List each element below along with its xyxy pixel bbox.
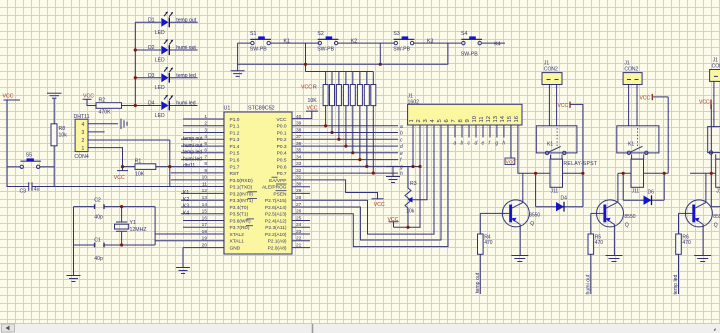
svg-text:g: g — [495, 141, 498, 147]
svg-text:P2.6(A14): P2.6(A14) — [265, 205, 287, 211]
svg-text:12MHZ: 12MHZ — [130, 227, 147, 233]
svg-text:470: 470 — [682, 240, 691, 246]
svg-text:C2: C2 — [94, 198, 101, 204]
svg-text:855: 855 — [713, 214, 720, 220]
svg-text:h: h — [400, 171, 403, 177]
svg-text:DHT11: DHT11 — [74, 114, 90, 120]
svg-text:temp led: temp led — [176, 73, 196, 79]
svg-text:P0.3: P0.3 — [277, 144, 287, 150]
svg-text:P0.2: P0.2 — [277, 137, 287, 143]
svg-text:P2.4(A12): P2.4(A12) — [265, 218, 287, 224]
svg-text:D6: D6 — [648, 190, 655, 196]
svg-text:470: 470 — [484, 240, 493, 246]
svg-text:38: 38 — [296, 127, 302, 133]
svg-text:d: d — [400, 144, 403, 150]
svg-text:SW-PB: SW-PB — [461, 52, 478, 58]
svg-text:VCC: VCC — [506, 160, 516, 165]
svg-text:SW-PB: SW-PB — [317, 47, 334, 53]
svg-text:P0.1: P0.1 — [277, 130, 287, 136]
svg-text:P1.3: P1.3 — [230, 137, 240, 143]
svg-text:8: 8 — [458, 119, 464, 122]
svg-text:RELAY-SPST: RELAY-SPST — [563, 161, 598, 167]
svg-text:R8: R8 — [59, 126, 66, 132]
svg-text:30: 30 — [296, 182, 302, 188]
svg-text:temp out: temp out — [176, 17, 196, 23]
svg-text:16: 16 — [514, 116, 520, 122]
svg-text:29: 29 — [296, 188, 302, 194]
svg-text:K3: K3 — [183, 204, 189, 210]
svg-text:STC89C52: STC89C52 — [248, 105, 275, 111]
svg-text:10k: 10k — [406, 209, 415, 215]
svg-text:ALE/PROG: ALE/PROG — [262, 185, 287, 191]
svg-text:Y1: Y1 — [130, 220, 136, 226]
svg-text:Q: Q — [714, 222, 718, 228]
svg-text:5: 5 — [437, 119, 443, 122]
svg-text:K1: K1 — [284, 38, 290, 44]
svg-text:VCC: VCC — [301, 84, 312, 90]
svg-text:VCC: VCC — [374, 202, 385, 208]
svg-text:humi led: humi led — [183, 156, 202, 162]
svg-text:4u: 4u — [34, 186, 40, 192]
svg-text:D1: D1 — [148, 17, 155, 23]
svg-text:P2.1(A9): P2.1(A9) — [268, 239, 287, 245]
svg-text:D2: D2 — [148, 45, 155, 51]
svg-text:VCC: VCC — [3, 94, 14, 100]
svg-text:humi out: humi out — [585, 274, 591, 294]
svg-text:CON2: CON2 — [624, 66, 638, 72]
svg-text:VCC: VCC — [307, 105, 318, 111]
svg-text:e: e — [400, 151, 403, 157]
svg-text:SW-PB: SW-PB — [250, 47, 267, 53]
svg-text:13: 13 — [202, 195, 208, 201]
svg-text:470K: 470K — [99, 110, 112, 116]
svg-text:a: a — [454, 141, 457, 147]
svg-text:D4: D4 — [148, 101, 155, 107]
svg-text:1602: 1602 — [408, 99, 420, 105]
svg-text:S4: S4 — [461, 31, 467, 37]
svg-text:LED: LED — [155, 113, 165, 119]
svg-text:P3.4(T0): P3.4(T0) — [230, 205, 249, 211]
svg-text:2: 2 — [204, 121, 207, 127]
svg-text:9: 9 — [465, 119, 471, 122]
svg-text:26: 26 — [296, 209, 302, 215]
svg-text:12: 12 — [486, 116, 492, 122]
svg-text:LED: LED — [155, 58, 165, 64]
svg-text:13: 13 — [493, 116, 499, 122]
svg-text:9: 9 — [204, 168, 207, 174]
svg-text:h: h — [502, 141, 505, 147]
svg-text:P3.0(RXD): P3.0(RXD) — [230, 178, 254, 184]
svg-text:P2.0(A8): P2.0(A8) — [268, 246, 287, 252]
svg-text:36: 36 — [296, 141, 302, 147]
svg-text:10K: 10K — [135, 172, 145, 178]
svg-text:4: 4 — [82, 122, 85, 128]
svg-text:470: 470 — [595, 240, 604, 246]
svg-text:3: 3 — [204, 127, 207, 133]
svg-text:VCC: VCC — [640, 96, 651, 102]
svg-text:XTAL1: XTAL1 — [230, 239, 245, 245]
svg-text:P0.6: P0.6 — [277, 164, 287, 170]
svg-text:2: 2 — [416, 119, 422, 122]
svg-text:1: 1 — [82, 146, 85, 152]
svg-text:18: 18 — [202, 229, 208, 235]
svg-text:P1.2: P1.2 — [230, 130, 240, 136]
svg-text:U1: U1 — [224, 105, 231, 111]
svg-text:K4: K4 — [183, 210, 189, 216]
svg-text:1: 1 — [409, 119, 415, 122]
svg-text:24: 24 — [296, 222, 302, 228]
svg-text:23: 23 — [296, 229, 302, 235]
svg-text:CON2: CON2 — [712, 63, 720, 69]
svg-text:b: b — [461, 141, 464, 147]
svg-text:14: 14 — [202, 202, 208, 208]
svg-text:28: 28 — [296, 195, 302, 201]
svg-text:R2: R2 — [99, 98, 106, 104]
svg-text:EA/VPP: EA/VPP — [269, 178, 286, 184]
svg-text:10k: 10k — [59, 133, 68, 139]
svg-text:LED: LED — [155, 30, 165, 36]
svg-text:10K: 10K — [308, 98, 318, 104]
svg-text:34: 34 — [296, 154, 302, 160]
svg-text:27: 27 — [296, 202, 302, 208]
svg-text:LED: LED — [155, 85, 165, 91]
svg-text:40: 40 — [296, 114, 302, 120]
svg-text:J11: J11 — [632, 188, 640, 194]
svg-text:S3: S3 — [393, 31, 399, 37]
svg-text:J11: J11 — [551, 188, 559, 194]
svg-text:2: 2 — [82, 138, 85, 144]
svg-text:7: 7 — [204, 154, 207, 160]
svg-text:P1.6: P1.6 — [230, 158, 240, 164]
svg-text:19: 19 — [202, 236, 208, 242]
svg-text:P1.7: P1.7 — [230, 164, 240, 170]
svg-text:22: 22 — [296, 236, 302, 242]
svg-text:temp out: temp out — [475, 272, 481, 293]
svg-text:K1: K1 — [547, 141, 553, 147]
svg-text:10: 10 — [202, 175, 208, 181]
svg-text:7: 7 — [451, 119, 457, 122]
svg-text:VCC: VCC — [558, 103, 569, 109]
svg-text:P0.7: P0.7 — [277, 171, 287, 177]
svg-text:32: 32 — [296, 168, 302, 174]
svg-text:P1.0: P1.0 — [230, 117, 240, 123]
svg-text:31: 31 — [296, 175, 302, 181]
svg-text:16: 16 — [202, 215, 208, 221]
svg-text:8: 8 — [204, 161, 207, 167]
svg-text:P1.5: P1.5 — [230, 151, 240, 157]
svg-text:GND: GND — [230, 246, 241, 252]
svg-text:VCC: VCC — [388, 217, 399, 223]
svg-text:RST: RST — [230, 171, 240, 177]
svg-text:humi out: humi out — [176, 45, 196, 51]
svg-text:40p: 40p — [94, 256, 103, 262]
svg-text:VCC: VCC — [114, 175, 125, 181]
svg-text:VCC: VCC — [699, 100, 710, 106]
svg-text:SW-PB: SW-PB — [393, 47, 410, 53]
svg-text:P0.5: P0.5 — [277, 158, 287, 164]
svg-text:1: 1 — [204, 114, 207, 120]
svg-text:35: 35 — [296, 148, 302, 154]
svg-text:a: a — [400, 124, 403, 130]
svg-text:CON2: CON2 — [544, 66, 558, 72]
svg-text:S1: S1 — [250, 31, 256, 37]
svg-text:20: 20 — [202, 242, 208, 248]
svg-text:P1.4: P1.4 — [230, 144, 240, 150]
svg-text:R3: R3 — [410, 181, 417, 187]
svg-text:11: 11 — [479, 116, 485, 122]
svg-text:CON4: CON4 — [74, 154, 89, 160]
svg-text:temp led: temp led — [183, 150, 202, 156]
svg-text:P2.7(A15): P2.7(A15) — [265, 198, 287, 204]
svg-text:e: e — [482, 141, 485, 147]
svg-text:VCC: VCC — [83, 93, 94, 99]
svg-text:humi out: humi out — [183, 143, 203, 149]
svg-text:temp out: temp out — [183, 136, 203, 142]
svg-text:33: 33 — [296, 161, 302, 167]
svg-text:11: 11 — [202, 182, 207, 188]
svg-text:b: b — [400, 131, 403, 137]
svg-text:3: 3 — [423, 119, 429, 122]
svg-text:39: 39 — [296, 121, 302, 127]
svg-text:PSEN: PSEN — [273, 191, 287, 197]
svg-text:S5: S5 — [26, 152, 32, 158]
svg-text:temp led: temp led — [673, 274, 679, 294]
svg-text:10: 10 — [472, 116, 478, 122]
svg-text:4: 4 — [204, 134, 207, 140]
svg-text:K1: K1 — [183, 190, 189, 196]
svg-text:humi led: humi led — [176, 101, 195, 107]
svg-text:12: 12 — [202, 188, 208, 194]
svg-text:R: R — [313, 84, 317, 90]
svg-text:K1: K1 — [628, 141, 634, 147]
svg-text:g: g — [400, 164, 403, 170]
svg-text:Q: Q — [625, 222, 629, 228]
svg-text:5: 5 — [204, 141, 207, 147]
svg-text:K4: K4 — [494, 41, 500, 47]
svg-text:14: 14 — [500, 115, 506, 122]
svg-text:6: 6 — [444, 119, 450, 122]
svg-text:d: d — [475, 141, 478, 147]
svg-text:6: 6 — [204, 148, 207, 154]
svg-text:P2.2(A10): P2.2(A10) — [265, 232, 287, 238]
svg-text:17: 17 — [202, 222, 208, 228]
svg-text:21: 21 — [296, 242, 302, 248]
svg-text:Q: Q — [530, 221, 534, 227]
svg-text:C1: C1 — [94, 238, 101, 244]
svg-text:VCC: VCC — [276, 117, 287, 123]
svg-text:XTAL2: XTAL2 — [230, 232, 245, 238]
svg-text:C3: C3 — [20, 188, 27, 194]
svg-text:S2: S2 — [317, 31, 323, 37]
svg-text:J11: J11 — [716, 188, 720, 194]
svg-text:K2: K2 — [183, 197, 189, 203]
svg-text:P2.5(A13): P2.5(A13) — [265, 212, 287, 218]
svg-text:15: 15 — [507, 116, 513, 122]
svg-text:K2: K2 — [351, 38, 357, 44]
svg-text:8550: 8550 — [624, 214, 635, 220]
svg-text:P3.1(TXD): P3.1(TXD) — [230, 185, 253, 191]
svg-text:40p: 40p — [94, 215, 103, 221]
svg-text:3: 3 — [82, 130, 85, 136]
svg-text:37: 37 — [296, 134, 302, 140]
svg-text:D3: D3 — [148, 73, 155, 79]
svg-text:P1.1: P1.1 — [230, 124, 240, 130]
svg-text:P3.5(T1): P3.5(T1) — [230, 212, 249, 218]
svg-text:R1: R1 — [135, 159, 142, 165]
svg-text:8550: 8550 — [529, 212, 540, 218]
svg-text:15: 15 — [202, 209, 208, 215]
svg-text:P0.4: P0.4 — [277, 151, 287, 157]
svg-text:P0.0: P0.0 — [277, 124, 287, 130]
svg-text:P2.3(A11): P2.3(A11) — [265, 225, 287, 231]
svg-text:25: 25 — [296, 215, 302, 221]
svg-text:K3: K3 — [427, 38, 433, 44]
svg-text:D4: D4 — [561, 196, 568, 202]
svg-text:dht11: dht11 — [183, 163, 195, 169]
